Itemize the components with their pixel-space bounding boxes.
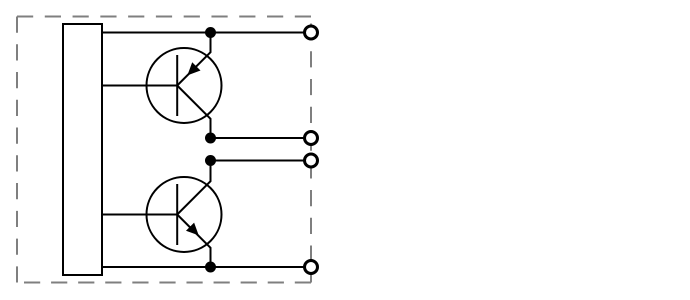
terminal pin 3 xyxy=(305,154,318,167)
terminal pin 4 (bottom) xyxy=(305,261,318,274)
transistor Q1 (PNP, top) xyxy=(147,33,222,139)
wire base of Q2 xyxy=(102,214,178,216)
node junction dot top rail xyxy=(205,27,216,38)
wire collector output Q1 xyxy=(211,137,305,139)
node junction dot bottom rail xyxy=(205,262,216,273)
component body (input block) xyxy=(63,24,102,275)
wire base of Q1 xyxy=(102,85,178,87)
wire bottom rail xyxy=(102,266,305,268)
node junction dot Q2 collector xyxy=(205,155,216,166)
wire collector output Q2 xyxy=(211,160,305,162)
node junction dot Q1 collector xyxy=(205,133,216,144)
terminal pin 1 (top) xyxy=(305,26,318,39)
dashed enclosure (device outline) xyxy=(17,17,311,283)
terminal pin 2 xyxy=(305,132,318,145)
wire top rail xyxy=(102,32,305,34)
transistor Q2 (NPN, bottom) xyxy=(147,161,222,268)
